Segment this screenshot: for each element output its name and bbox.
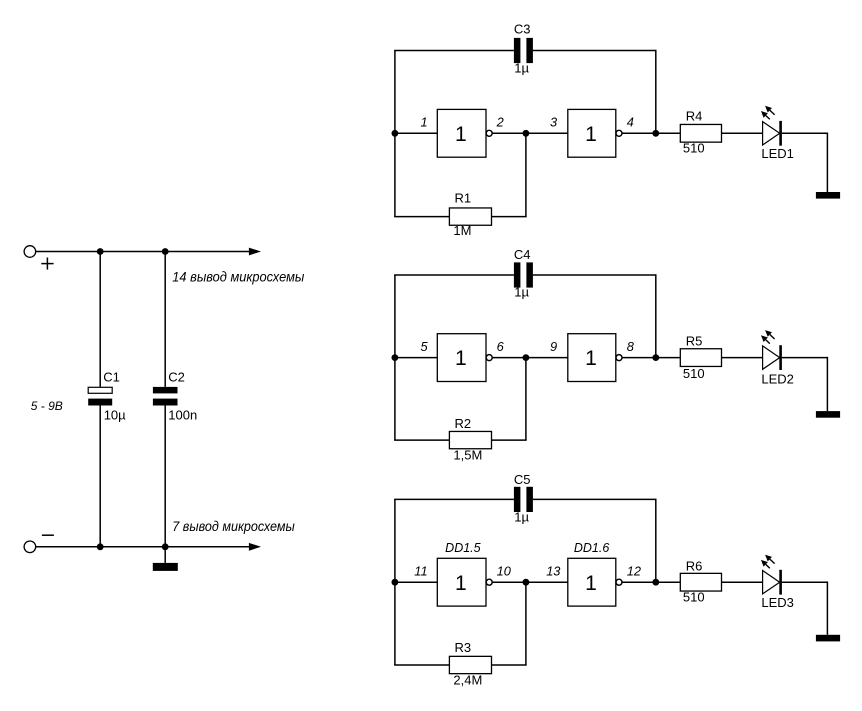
- LED LED1 light arrow 2: [766, 115, 770, 119]
- node stage1 mid: [523, 130, 530, 137]
- LED LED2 light arrow 2: [766, 340, 770, 344]
- svg-text:C5: C5: [514, 472, 531, 487]
- wire stage2 LED to ground vertical: [782, 357, 828, 359]
- LED LED3 cathode bar: [779, 570, 782, 595]
- resistor R4: [680, 124, 721, 142]
- wire stage2 to resistor: [656, 357, 681, 359]
- capacitor C4 left plate: [514, 262, 521, 287]
- arrow to pin 14: [249, 248, 261, 256]
- capacitor C5 left plate: [514, 487, 521, 512]
- svg-text:10: 10: [497, 563, 512, 578]
- svg-text:R4: R4: [686, 108, 703, 123]
- node stage2 output: [652, 354, 659, 361]
- LED LED3 triangle: [763, 571, 780, 594]
- wire stage1 left vertical: [394, 51, 396, 217]
- wire stage2 gate2 input: [526, 357, 568, 359]
- svg-text:R3: R3: [455, 640, 472, 655]
- wire +V rail: [36, 251, 250, 253]
- LED LED3 light arrow 1: [770, 559, 775, 563]
- LED LED1 light arrow 1: [770, 110, 775, 114]
- svg-text:C4: C4: [514, 247, 531, 262]
- inverter gate stage2a bubble: [486, 355, 492, 361]
- svg-text:R2: R2: [455, 416, 472, 431]
- inverter gate stage1a bubble: [486, 130, 492, 136]
- svg-text:12: 12: [627, 563, 641, 578]
- svg-text:LED3: LED3: [761, 595, 794, 610]
- resistor R6: [680, 573, 721, 591]
- capacitor C4 right plate: [526, 262, 533, 287]
- wire stage1 top left: [394, 50, 514, 52]
- resistor R1: [449, 208, 491, 225]
- node stage3 input: [392, 579, 399, 586]
- svg-text:10µ: 10µ: [104, 408, 126, 423]
- svg-text:1M: 1M: [453, 223, 471, 238]
- node on 0V rail at C1: [97, 543, 104, 550]
- wire 0V rail: [36, 546, 250, 548]
- svg-text:510: 510: [683, 140, 705, 155]
- wire C2 branch upper: [164, 252, 166, 387]
- wire stage3 gate1 input: [395, 581, 437, 583]
- svg-text:2: 2: [496, 115, 504, 130]
- svg-text:9: 9: [550, 339, 557, 354]
- minus sign: [42, 534, 54, 536]
- svg-text:1: 1: [585, 347, 597, 370]
- wire stage1 gate1 input: [395, 132, 437, 134]
- svg-text:5 - 9В: 5 - 9В: [31, 399, 63, 413]
- wire stage3 feedback left: [394, 664, 449, 666]
- wire stage2 top left: [394, 274, 514, 276]
- ground stage1: [816, 192, 840, 199]
- wire stage1 LED to ground vertical: [782, 132, 828, 134]
- svg-text:DD1.5: DD1.5: [445, 541, 480, 555]
- wire stage2 gate2 out: [622, 357, 656, 359]
- svg-text:510: 510: [683, 590, 705, 605]
- svg-text:1: 1: [455, 123, 467, 146]
- svg-text:13: 13: [546, 563, 560, 578]
- svg-text:7 вывод микросхемы: 7 вывод микросхемы: [172, 518, 295, 534]
- inverter gate stage1b box: [568, 109, 616, 157]
- wire stage1 feedback left: [394, 216, 449, 218]
- inverter gate stage1b bubble: [616, 130, 622, 136]
- terminal + (plus supply input): [24, 246, 36, 258]
- node on +V rail at C1: [97, 248, 104, 255]
- wire stage2 feedback right: [492, 439, 527, 441]
- svg-text:LED1: LED1: [761, 146, 794, 161]
- wire stage3 to resistor: [656, 581, 681, 583]
- LED LED2 cathode bar: [779, 345, 782, 370]
- svg-text:R6: R6: [686, 559, 703, 574]
- ground stage3: [816, 635, 840, 642]
- svg-text:LED2: LED2: [761, 371, 794, 386]
- wire stage3 resistor to LED: [722, 581, 763, 583]
- wire stage3 C-loop right vertical: [655, 499, 657, 583]
- svg-text:R5: R5: [686, 333, 703, 348]
- inverter gate stage3a bubble: [486, 579, 492, 585]
- svg-text:1: 1: [420, 115, 427, 130]
- node stage3 output: [652, 579, 659, 586]
- svg-text:R1: R1: [455, 191, 472, 206]
- wire stage2 feedback left: [394, 439, 449, 441]
- wire C2 branch lower: [164, 406, 166, 547]
- wire C1 branch lower: [99, 406, 101, 547]
- node on +V rail at C2: [162, 248, 169, 255]
- wire stage3 gate2 out: [622, 581, 656, 583]
- node on 0V rail at C2: [162, 543, 169, 550]
- wire stage2 C-loop right vertical: [655, 274, 657, 357]
- inverter gate stage1a box: [437, 109, 486, 157]
- terminal - (minus supply input): [24, 541, 36, 553]
- capacitor C1 minus plate: [88, 399, 112, 406]
- wire stage1 resistor to LED: [722, 132, 763, 134]
- ground power rail: [153, 563, 178, 571]
- wire stage2 left vertical: [394, 275, 396, 440]
- wire stage1 gate1 out: [492, 132, 526, 134]
- wire stage1 gate2 out: [622, 132, 656, 134]
- wire stage1 C-loop right vertical: [655, 50, 657, 134]
- wire stage3 LED to ground vertical: [782, 581, 828, 583]
- LED LED2 light arrow 1: [770, 335, 775, 339]
- wire stage2 gate1 input: [395, 357, 437, 359]
- inverter gate stage2b box: [568, 334, 616, 382]
- capacitor C3 left plate: [514, 38, 521, 63]
- wire stage3 mid vertical: [525, 582, 527, 665]
- wire stage2 resistor to LED: [722, 357, 763, 359]
- inverter gate stage2a box: [437, 334, 486, 382]
- inverter gate stage3b box: [568, 558, 616, 606]
- capacitor C1 plus plate: [88, 387, 112, 393]
- node stage1 input: [392, 130, 399, 137]
- wire stage2 mid vertical: [525, 358, 527, 441]
- plus sign: [41, 263, 53, 265]
- svg-text:100n: 100n: [168, 408, 197, 423]
- node stage2 mid: [523, 354, 530, 361]
- svg-text:C2: C2: [168, 369, 185, 384]
- resistor R2: [449, 431, 491, 448]
- svg-text:DD1.6: DD1.6: [574, 541, 609, 555]
- svg-text:8: 8: [627, 339, 635, 354]
- wire stage2 gate1 out: [492, 357, 526, 359]
- inverter gate stage2b bubble: [616, 355, 622, 361]
- wire stage3 gate2 input: [526, 581, 568, 583]
- node stage2 input: [392, 354, 399, 361]
- wire stage3 left vertical: [394, 499, 396, 665]
- svg-text:14 вывод микросхемы: 14 вывод микросхемы: [172, 269, 305, 285]
- wire stage2 top right: [533, 274, 656, 276]
- wire stage3 feedback right: [492, 664, 527, 666]
- inverter gate stage3b bubble: [616, 579, 622, 585]
- svg-text:C3: C3: [514, 22, 531, 37]
- ground stage2: [816, 411, 840, 418]
- svg-text:1,5M: 1,5M: [453, 447, 482, 462]
- wire stage1 feedback right: [492, 216, 527, 218]
- LED LED1 triangle: [763, 122, 780, 145]
- inverter gate stage3a box: [437, 558, 486, 606]
- wire stage3 top left: [394, 498, 514, 500]
- svg-text:1: 1: [585, 123, 597, 146]
- resistor R5: [680, 349, 721, 367]
- svg-text:1µ: 1µ: [514, 60, 529, 75]
- svg-text:1µ: 1µ: [514, 285, 529, 300]
- LED LED2 triangle: [763, 346, 780, 369]
- svg-text:1µ: 1µ: [514, 510, 529, 525]
- capacitor C5 right plate: [526, 487, 533, 512]
- capacitor C2 top plate: [153, 387, 178, 394]
- svg-text:2,4M: 2,4M: [453, 672, 482, 687]
- svg-text:C1: C1: [103, 369, 120, 384]
- resistor R3: [449, 656, 491, 673]
- node stage3 mid: [523, 579, 530, 586]
- capacitor C2 bottom plate: [153, 399, 178, 406]
- svg-text:11: 11: [414, 563, 427, 578]
- wire stage1 gate2 input: [526, 132, 568, 134]
- wire stage3 top right: [533, 498, 656, 500]
- svg-text:6: 6: [497, 339, 505, 354]
- svg-text:1: 1: [455, 572, 467, 595]
- wire C1 branch upper: [99, 252, 101, 388]
- wire stage1 to resistor: [656, 132, 681, 134]
- LED LED3 light arrow 2: [766, 564, 770, 568]
- wire to ground: [164, 547, 166, 563]
- svg-text:5: 5: [420, 339, 428, 354]
- LED LED1 cathode bar: [779, 121, 782, 146]
- node stage1 output: [652, 130, 659, 137]
- wire stage1 top right: [533, 50, 656, 52]
- svg-text:510: 510: [683, 366, 705, 381]
- svg-text:4: 4: [627, 115, 634, 130]
- svg-text:1: 1: [455, 347, 467, 370]
- svg-text:1: 1: [585, 572, 597, 595]
- wire stage1 mid vertical: [525, 133, 527, 216]
- svg-text:3: 3: [550, 115, 557, 130]
- wire stage3 gate1 out: [492, 581, 526, 583]
- capacitor C3 right plate: [526, 38, 533, 63]
- arrow to pin 7: [249, 543, 261, 551]
